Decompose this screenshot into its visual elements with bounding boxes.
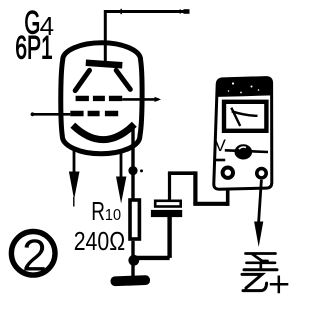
wire capacitor top to meter (168, 173, 171, 199)
beam plate right (116, 70, 130, 89)
capacitor C negative plate (151, 210, 182, 217)
ground (110, 275, 150, 286)
svg-text:10: 10 (105, 206, 121, 224)
wire meter positive with arrow (259, 180, 262, 223)
junction node resistor bottom (128, 255, 139, 266)
cathode (73, 124, 135, 139)
heater lead right with arrow (120, 150, 123, 180)
meter M1 body (214, 78, 272, 190)
svg-text:240Ω: 240Ω (74, 227, 125, 257)
resistor R10 (130, 200, 139, 239)
wire to ground (131, 265, 134, 277)
figure number 2 circled (11, 232, 55, 276)
label yi (B) (242, 274, 267, 290)
wire resistor bottom (131, 241, 134, 256)
capacitor C positive plate (155, 201, 181, 207)
wire junction to capacitor bottom (134, 256, 170, 260)
meter top cap (217, 78, 272, 97)
beam plate left (75, 70, 89, 90)
svg-text:R: R (91, 196, 105, 226)
tube V1 envelope (61, 43, 142, 154)
svg-text:V: V (215, 136, 227, 155)
meter display window (224, 102, 266, 131)
svg-text:2: 2 (22, 231, 47, 280)
heater lead left with arrow (73, 148, 76, 175)
meter terminal positive (257, 169, 266, 178)
screen grid g2 dashes (76, 96, 123, 101)
control grid g1 dashes (70, 111, 118, 116)
svg-text:6P1: 6P1 (15, 29, 53, 66)
label plus (270, 276, 289, 294)
anode plate (86, 63, 123, 65)
junction node cathode (128, 166, 137, 175)
meter terminal negative (223, 168, 233, 178)
label zhi (to) (244, 254, 277, 270)
anode lead wire (105, 12, 189, 65)
control grid lead wire (32, 113, 71, 116)
screen grid lead wire (122, 98, 158, 101)
cathode lead wire (131, 127, 134, 199)
meter needle (231, 108, 240, 126)
meter range knob (235, 144, 253, 159)
